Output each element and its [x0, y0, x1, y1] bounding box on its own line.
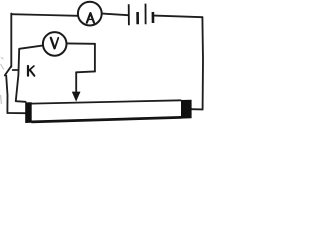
wire tap to left clamp top: [16, 100, 26, 103]
wire battery to top-right corner: [154, 16, 202, 18]
wire voltmeter tap vertical: [16, 49, 19, 101]
wire voltmeter left lead: [19, 45, 43, 48]
wire right corner to right clamp: [192, 108, 203, 110]
rheostat right clamp: [181, 100, 192, 119]
wire top-left to ammeter: [11, 14, 78, 16]
battery B1 plate long 1: [128, 4, 130, 25]
wire voltmeter right lead: [66, 42, 95, 44]
switch K label: [28, 66, 34, 76]
battery B1 plate short 2: [152, 12, 155, 23]
battery B1 plate long 2: [145, 4, 147, 25]
battery B1 plate short 1: [136, 12, 139, 24]
wire jog to slider: [76, 70, 95, 73]
rheostat rod bottom edge: [31, 117, 181, 122]
slider arrow head: [72, 92, 81, 102]
wire right vertical: [201, 17, 204, 109]
wire switch lower lead: [6, 76, 7, 113]
wire slider vertical from voltmeter: [94, 44, 96, 72]
wire switch lead to left clamp side: [7, 112, 25, 114]
rheostat rod top edge: [31, 100, 181, 103]
voltmeter label V: [51, 38, 59, 49]
switch K contact dash: [13, 69, 18, 71]
ammeter label A: [87, 13, 94, 23]
wire slider shaft: [75, 72, 77, 92]
rheostat left clamp: [25, 102, 32, 123]
switch K blade: [5, 67, 11, 76]
wire ammeter to battery: [102, 14, 128, 16]
scan smudge left edge: [1, 58, 4, 105]
voltmeter U-V circle: [43, 32, 67, 56]
ammeter U-A circle: [78, 2, 102, 26]
wire left vertical (top corner down to switch): [10, 14, 12, 67]
